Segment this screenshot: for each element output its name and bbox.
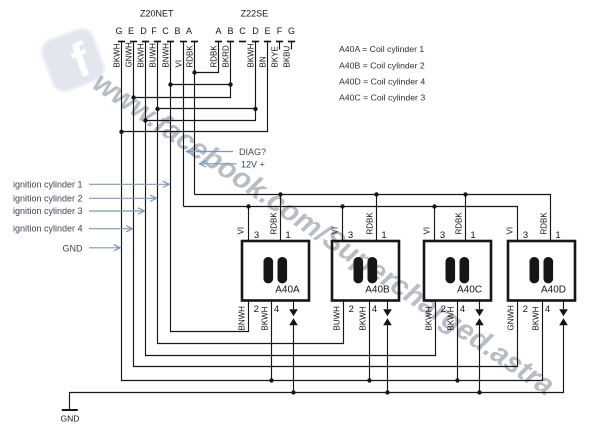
svg-text:A40B = Coil cylinder 2: A40B = Coil cylinder 2 [339,61,425,71]
junction A40A spark / chassis bus [291,390,295,394]
svg-text:VI: VI [237,227,246,235]
svg-text:BN: BN [258,56,267,67]
svg-text:F: F [151,26,157,36]
svg-text:VI: VI [506,227,515,235]
junction A40B spark / chassis bus [385,390,389,394]
svg-text:BKWH: BKWH [112,43,121,67]
svg-text:12V +: 12V + [241,159,265,169]
svg-text:RDBK: RDBK [209,45,218,68]
svg-text:D: D [140,26,147,36]
svg-text:RDBK: RDBK [366,212,375,235]
wire A40C pin3 VI drop [434,207,436,242]
junction wire C / branch [168,82,172,86]
svg-text:RDBK: RDBK [540,212,549,235]
wire Z22SE-A RDBK to node on wire A [195,42,219,73]
svg-text:C: C [162,26,169,36]
svg-text:BNWH: BNWH [161,43,170,68]
svg-text:BKWH: BKWH [246,43,255,67]
junction wire G / Z22SE-E [119,130,123,134]
svg-text:A40D: A40D [541,285,566,296]
ignition coil A40A [242,241,309,301]
svg-text:4: 4 [460,304,465,315]
svg-text:A40A = Coil cylinder 1: A40A = Coil cylinder 1 [339,44,424,54]
ignition coil A40D [508,241,575,301]
svg-text:3: 3 [523,230,528,241]
svg-text:4: 4 [274,304,279,315]
svg-text:BKWH: BKWH [136,43,145,67]
svg-text:1: 1 [470,230,475,241]
junction wire E / Z22SE-B [131,95,135,99]
wire A40A pin3 VI drop [248,207,250,242]
svg-text:4: 4 [372,304,377,315]
svg-text:ignition cylinder 1: ignition cylinder 1 [13,180,83,190]
svg-text:A: A [215,26,221,36]
svg-text:A: A [186,26,192,36]
junction bus 12V+ / A40A [278,192,282,196]
svg-text:ignition cylinder 4: ignition cylinder 4 [13,224,83,234]
svg-text:1: 1 [381,230,386,241]
bus 12V+ RDBK to coil pin1 [195,195,551,242]
wire E GNWH ignition cyl4 to A40D pin2 [134,42,518,367]
wire stub Z22SE-G BKBU [291,42,293,50]
svg-text:GND: GND [61,414,80,424]
wire Z22SE-E BN to wire G [122,42,268,132]
svg-text:E: E [264,26,270,36]
svg-text:Z20NET: Z20NET [140,9,174,19]
junction A40A pin4 / ground bus [269,378,273,382]
watermark facebook logo [38,25,108,97]
svg-text:BUWH: BUWH [148,43,157,68]
svg-text:B: B [227,26,233,36]
svg-text:ignition cylinder 2: ignition cylinder 2 [13,193,83,203]
wire A40C pin1 RDBK drop [465,195,467,242]
svg-text:A40A: A40A [275,285,300,296]
svg-text:RDBK: RDBK [270,212,279,235]
A40D spark gap output [559,301,568,326]
svg-text:2: 2 [523,304,528,315]
wire F BUWH ignition cyl2 to A40B pin2 [158,42,344,344]
wire branch Z20NET-C to Z22SE-B [171,84,231,86]
wire Z22SE-B BKRD down with branch [134,42,231,98]
ground symbol [62,409,78,411]
svg-text:A40C: A40C [457,285,482,296]
A40A pin 4 wire [271,301,273,381]
svg-text:BNWH: BNWH [238,306,247,331]
wire branch Z20NET-F to Z22SE-D [158,108,256,110]
wire A40B pin3 VI drop [342,207,344,242]
svg-text:BKYE: BKYE [270,46,279,67]
svg-text:2: 2 [349,304,354,315]
junction bus 12V+ / A40B [374,192,378,196]
chassis ground bus to spark gaps [70,325,564,409]
svg-text:A40D = Coil cylinder 4: A40D = Coil cylinder 4 [339,77,425,87]
svg-text:Z22SE: Z22SE [241,9,269,19]
svg-text:A40C = Coil cylinder 3: A40C = Coil cylinder 3 [339,93,425,103]
wire Z22SE-D BKWH down with branch [146,42,256,121]
svg-text:VI: VI [174,60,183,68]
svg-text:BKWH: BKWH [532,306,541,330]
svg-text:1: 1 [555,230,560,241]
svg-text:E: E [128,26,134,36]
junction wire A / Z22SE-A [192,70,196,74]
svg-text:ignition cylinder 3: ignition cylinder 3 [13,206,83,216]
svg-text:F: F [277,26,283,36]
svg-text:3: 3 [440,230,445,241]
junction wire F / branch [155,107,159,111]
svg-text:BKWH: BKWH [447,306,456,330]
svg-text:G: G [288,26,295,36]
svg-text:2: 2 [254,304,259,315]
svg-text:VI: VI [423,227,432,235]
svg-text:DIAG?: DIAG? [239,147,266,157]
junction bus DIAG / A40C [432,204,436,208]
svg-text:4: 4 [545,304,550,315]
svg-text:3: 3 [348,230,353,241]
svg-text:RDBK: RDBK [455,212,464,235]
wire Z20NET-A RDBK down to 12V+ bus [194,42,196,195]
svg-text:A40B: A40B [365,285,390,296]
A40B pin 4 wire [369,301,371,381]
wire A40A pin1 RDBK drop [280,195,282,242]
svg-text:1: 1 [285,230,290,241]
junction A40C spark / chassis bus [477,390,481,394]
wire Z20NET-B VI down to DIAG bus [183,42,185,207]
wire stub Z22SE-F BKYE [279,42,281,50]
svg-text:D: D [252,26,259,36]
junction A40B pin4 / ground bus [367,378,371,382]
wire A40B pin1 RDBK drop [376,195,378,242]
svg-text:3: 3 [254,230,259,241]
svg-text:C: C [239,26,246,36]
svg-text:BKRD: BKRD [221,45,230,67]
junction bus DIAG / A40B [340,204,344,208]
svg-text:B: B [174,26,180,36]
wire G BKWH ground bus to coil pin4 [122,42,543,381]
svg-text:VI: VI [331,227,340,235]
svg-text:BKWH: BKWH [425,306,434,330]
svg-text:GNWH: GNWH [124,42,133,68]
wire D BKWH ignition cyl3 to A40C pin2 [146,42,436,356]
ignition coil A40C [424,241,491,301]
svg-text:GND: GND [63,244,84,254]
A40C spark gap output [475,301,484,393]
svg-text:GNWH: GNWH [507,305,516,331]
junction A40C pin4 / ground bus [455,378,459,382]
junction Z22SE-B / branch [228,82,232,86]
svg-text:BKWH: BKWH [261,306,270,330]
svg-text:G: G [115,26,122,36]
svg-text:2: 2 [441,304,446,315]
wire C BNWH ignition cyl1 to A40A pin2 [171,42,249,332]
junction bus 12V+ / A40C [463,192,467,196]
svg-text:BUWH: BUWH [333,306,342,331]
junction bus DIAG / A40A [246,204,250,208]
bus DIAG VI to coil pin3 [184,207,518,242]
A40B spark gap output [383,301,392,393]
A40A spark gap output [289,301,298,393]
junction Z22SE-D / branch [253,107,257,111]
svg-text:BKBU: BKBU [282,45,291,67]
svg-text:RDBK: RDBK [185,45,194,68]
ignition coil A40B [332,241,399,301]
A40C pin 4 wire [457,301,459,381]
svg-text:BKWH: BKWH [359,306,368,330]
junction wire D / Z22SE-D [143,118,147,122]
